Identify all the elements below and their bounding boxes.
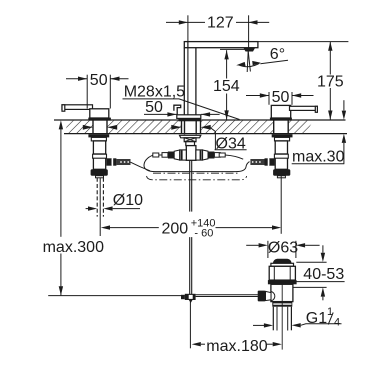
left valve supply pipe centerline [99, 178, 101, 236]
right valve body group (mirror of left) [250, 134, 292, 178]
right valve tail [277, 176, 285, 178]
tee left hose fitting dark [168, 152, 174, 159]
left valve tail [96, 176, 104, 178]
left valve shank [91, 137, 106, 141]
hose loop solid [144, 155, 250, 171]
center hole arrow right [201, 125, 211, 130]
dimension 50 right handle [246, 89, 314, 106]
svg-text:127: 127 [207, 14, 234, 31]
svg-text:6°: 6° [270, 46, 285, 63]
hose from tee right cap toward right valve [225, 155, 243, 159]
left valve supply pipe dashed right [102, 178, 104, 217]
svg-text:154: 154 [213, 78, 240, 95]
left hole edge lines [92, 121, 94, 134]
right handle escutcheon dark flange [270, 118, 292, 121]
dimension max.180 [192, 338, 282, 355]
pop-up knob hook at spout base [174, 105, 181, 114]
pop-up rod vertical double line [189, 160, 191, 211]
waste locknut [272, 302, 292, 307]
center washer below counter [180, 135, 201, 138]
dimension 50 spout base [144, 99, 220, 117]
counter top surface line [54, 119, 346, 121]
right valve tail single line [280, 176, 282, 234]
right valve backnut flange [272, 134, 293, 137]
spout shank lines through counter [184, 121, 186, 135]
left valve wide band [93, 154, 107, 158]
tee left hose outer cap [153, 153, 159, 157]
dimension 6 degrees [236, 46, 288, 72]
spout base flange dark band [178, 118, 201, 121]
tee left hose stub [162, 153, 168, 158]
left handle base block [90, 109, 109, 118]
waste upper body [269, 266, 295, 280]
svg-text:max.300: max.300 [43, 239, 104, 256]
waste rod nut dark [258, 291, 266, 302]
svg-text:175: 175 [317, 73, 344, 90]
left handle lever [62, 105, 93, 110]
waste centerline [281, 284, 283, 349]
tee left ring [180, 150, 187, 160]
spout base flange [177, 115, 201, 119]
right handle lever end tab [315, 106, 317, 112]
svg-text:Ø63: Ø63 [268, 239, 298, 256]
spout aerator dark block [244, 48, 256, 52]
counter hatch between left valve and spout [107, 121, 182, 134]
dimension 50 left handle [66, 72, 129, 109]
center mounting nut [184, 138, 196, 142]
right valve shank [275, 137, 290, 141]
svg-text:- 60: - 60 [194, 228, 213, 240]
center small block [186, 142, 195, 146]
label M28x1,5 [123, 84, 240, 120]
right valve hex nut [273, 169, 290, 175]
waste lower body [271, 284, 293, 301]
spout underside outlet line [220, 48, 254, 50]
right valve wide band [274, 154, 288, 158]
dimension max.30 [292, 100, 346, 165]
dimension 200 +140 -60 [101, 217, 281, 239]
svg-text:G1: G1 [306, 310, 327, 327]
center hole edge lines [181, 121, 183, 134]
pop-up rod junction dark [185, 294, 196, 300]
counter bottom surface line [64, 133, 347, 135]
svg-text:max.30: max.30 [292, 148, 345, 165]
svg-text:200: 200 [162, 220, 189, 237]
left hole arrow left [83, 125, 93, 130]
hose phantom dash-dot upper [153, 172, 239, 174]
label G1 1/4 [253, 306, 342, 329]
waste ball joint arc [271, 292, 275, 301]
right valve body [275, 141, 287, 169]
center hole arrow left [171, 125, 181, 130]
right handle base block [271, 105, 290, 118]
left valve backnut flange [88, 134, 109, 137]
left handle escutcheon dark flange [88, 118, 111, 121]
svg-text:4: 4 [334, 317, 340, 329]
counter hatch between spout and right valve [201, 121, 274, 134]
dimension 175 [258, 42, 349, 120]
waste seal flange dark [268, 280, 297, 284]
right handle lever [290, 106, 318, 110]
tee right hose fitting dark [208, 152, 214, 159]
dimension diameter 63 [246, 239, 319, 256]
right valve outlet knurled connector [250, 159, 264, 165]
spout column left inner line [187, 42, 189, 115]
dimension 154 [213, 50, 240, 119]
hose phantom dash-dot lower [147, 176, 247, 180]
hose from left valve to loop [131, 162, 151, 171]
counter hatch right of right valve [288, 121, 313, 134]
svg-text:M28x1,5: M28x1,5 [124, 84, 185, 101]
dimension 40-53 [293, 245, 344, 300]
left valve body group [88, 134, 130, 178]
dimension max.300 [43, 120, 104, 295]
tee right hose outer cap [219, 153, 225, 157]
right hole edge lines [273, 121, 275, 134]
dimension 127 [166, 14, 269, 48]
left hole arrow right [107, 125, 117, 130]
left valve outlet port rings [106, 158, 111, 165]
svg-text:max.180: max.180 [206, 338, 267, 355]
left valve outlet knurled connector [116, 159, 130, 165]
left valve body [93, 141, 105, 169]
left handle lever end tab [62, 105, 65, 111]
reference line left of junction [48, 295, 185, 297]
pop-up horizontal rod double line [196, 294, 258, 296]
waste plug dome dark [273, 259, 292, 264]
tee center block [186, 146, 196, 161]
waste plug plate [271, 263, 294, 266]
waste Ø63 extension lines [267, 241, 269, 258]
svg-text:40-53: 40-53 [303, 266, 344, 283]
label diameter 10 [86, 192, 144, 211]
waste tailpipe [272, 307, 274, 331]
tee right hose stub [214, 153, 220, 158]
svg-text:50: 50 [272, 89, 290, 106]
label diameter 34 [210, 127, 247, 152]
svg-text:Ø10: Ø10 [113, 192, 143, 209]
spout column left outer line [183, 48, 185, 115]
svg-text:1: 1 [327, 306, 333, 318]
svg-text:50: 50 [145, 99, 163, 116]
left valve supply pipe dashed left [96, 178, 98, 217]
left valve hex nut [91, 169, 108, 175]
spout column right line [195, 48, 197, 115]
counter hatch left of left valve [64, 121, 93, 134]
tee right ring [196, 150, 203, 160]
tee left cone [174, 150, 179, 160]
waste rod cone [266, 291, 272, 300]
pop-up rod extension line below junction [189, 300, 191, 348]
right valve outlet port rings [269, 158, 274, 165]
spout horizontal arm [184, 42, 258, 48]
svg-text:50: 50 [90, 72, 108, 89]
tee right cone [203, 150, 208, 160]
